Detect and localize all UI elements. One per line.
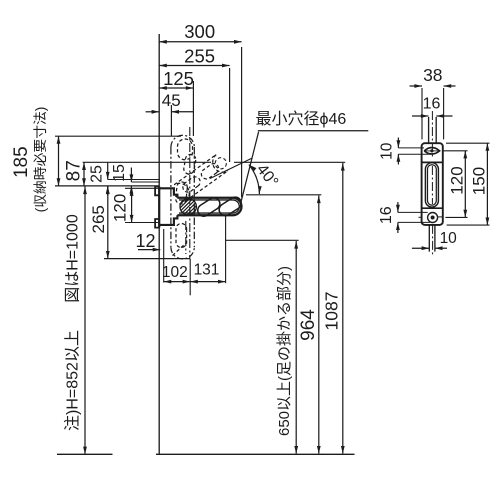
dim 87 (83, 162, 85, 186)
wire ext y186 plate top (55, 185, 159, 187)
dim 38 (410, 85, 423, 87)
svg-text:102: 102 (162, 264, 188, 281)
wire ext y194.8 (246, 194, 321, 196)
wire ext hole bottom tangent (398, 153, 431, 155)
dim 40deg arc (249, 165, 260, 195)
wire ext hole top tangent (398, 147, 424, 149)
pole tube top (428, 117, 430, 143)
arm outline (177, 198, 241, 216)
dim H (wall height) (84, 187, 86, 455)
svg-text:150: 150 (469, 167, 488, 195)
wire ext x163.7 (163, 229, 165, 283)
dim 10 top (hole height) (397, 138, 399, 148)
wire ext 45 right (170, 105, 172, 136)
dim 10 bottom (tube width) (412, 247, 429, 249)
svg-text:16: 16 (378, 206, 395, 224)
wire ext y179.5 (108, 179, 160, 181)
svg-text:964: 964 (298, 309, 319, 341)
centre slot outer (425, 163, 438, 207)
wire ext y188.3 (125, 187, 159, 189)
arm slot 1 (198, 198, 220, 217)
svg-text:図はH=1000: 図はH=1000 (65, 214, 82, 303)
dim 125 (159, 87, 193, 89)
wire ext 300 right (241, 47, 243, 197)
dim 16 bottom (397, 202, 399, 212)
plate top hook tab (155, 187, 159, 196)
wire ext x190.2 (189, 259, 191, 295)
wire ext y136 top of stored arm (55, 135, 181, 137)
wire ext 150 bottom (447, 224, 490, 226)
stored arm tip hole (178, 139, 193, 160)
wire chain stored lower (185, 221, 187, 254)
dim 265 (107, 187, 109, 259)
svg-text:注)H=852以上: 注)H=852以上 (63, 330, 81, 431)
wire ext y240.3 (226, 239, 299, 241)
svg-text:15: 15 (111, 164, 128, 182)
raised arm tip hole (215, 158, 226, 169)
wire leader to arm tip (241, 132, 258, 201)
wire ext y162.3 (234, 161, 345, 163)
svg-text:最小穴径ϕ46: 最小穴径ϕ46 (256, 110, 347, 128)
wire chain stored centreline (189, 127, 191, 259)
svg-text:650以上(足の掛かる部分): 650以上(足の掛かる部分) (276, 266, 293, 436)
wire ext 150 top (446, 142, 490, 144)
raised arm slot a (183, 177, 200, 192)
wire floor line main (156, 453, 355, 455)
side plate outline (422, 143, 443, 225)
svg-text:10: 10 (378, 142, 395, 160)
wire ext y258.6 stored arm bottom (104, 258, 190, 260)
plate crossline upper (422, 161, 443, 163)
dim 12 (138, 249, 160, 251)
wire chain side top (431, 111, 433, 158)
wire ext 38 left (421, 88, 423, 139)
dim 300 (159, 41, 241, 43)
wire centreline y162.35 (83, 161, 211, 163)
wire ext y182 (131, 181, 160, 183)
wall plate side profile (159, 188, 177, 197)
wire stored lower dash (173, 243, 187, 256)
svg-text:1087: 1087 (321, 292, 341, 331)
dim 255 (159, 65, 229, 67)
svg-text:255: 255 (184, 45, 215, 66)
svg-text:10: 10 (440, 230, 458, 247)
svg-text:185: 185 (11, 146, 32, 178)
svg-text:120: 120 (110, 194, 129, 222)
wire ext y222.5 (125, 222, 159, 224)
wire floor line left segment (57, 453, 113, 455)
svg-text:(収納時必要寸法): (収納時必要寸法) (33, 107, 48, 213)
raised arm slot b (201, 164, 218, 179)
wire ext x225.6 (225, 216, 227, 284)
wire ext 38 right (443, 88, 445, 139)
stored arm lower slot (176, 224, 187, 248)
svg-text:16: 16 (423, 96, 441, 113)
top mounting hole (eye) (424, 147, 439, 154)
wire ext 120 bottom (445, 216, 467, 218)
svg-text:300: 300 (184, 21, 215, 42)
wire ext bottom hole bottom tangent (398, 221, 430, 223)
wire leader underline (258, 130, 369, 132)
stored arm phantom outline (170, 147, 172, 247)
centre slot inner (428, 165, 437, 205)
plate bottom hook tab (155, 219, 159, 228)
dim 25 (outside arrows) (107, 163, 109, 180)
wire ext 125 right (192, 81, 194, 136)
bottom mounting hole (428, 213, 438, 223)
svg-text:265: 265 (89, 205, 108, 233)
wire chain side slot (431, 166, 433, 204)
wire chain side bottom (432, 225, 434, 256)
dim 185 (storage height) (58, 136, 60, 186)
arm inner contour (179, 200, 239, 213)
svg-text:38: 38 (423, 65, 442, 85)
pole tube bottom (428, 225, 430, 252)
dim 16 top (412, 115, 429, 117)
dim 15 (outside arrows) (130, 168, 132, 183)
plate crossline lower (422, 207, 443, 209)
dim 45 (146, 111, 160, 113)
stored arm slot b (184, 154, 196, 174)
svg-text:125: 125 (163, 68, 194, 89)
wire 40deg reference line (210, 158, 252, 179)
svg-text:87: 87 (64, 160, 85, 181)
raised arm phantom (186, 171, 228, 201)
wire wall surface line (158, 34, 160, 454)
dim 120 left (131, 188, 133, 222)
arm slot 2 (pole hole) (219, 197, 241, 216)
dim 102 (164, 281, 191, 283)
svg-text:131: 131 (194, 261, 220, 278)
wire ext 255 right (229, 68, 231, 162)
svg-text:25: 25 (89, 165, 106, 183)
dim 131 (190, 281, 225, 283)
stored arm slot a (176, 182, 188, 204)
svg-text:12: 12 (135, 231, 155, 251)
svg-text:120: 120 (447, 166, 466, 194)
wire ext bottom hole top tangent (398, 211, 428, 213)
wire ext 120 top (443, 150, 468, 152)
